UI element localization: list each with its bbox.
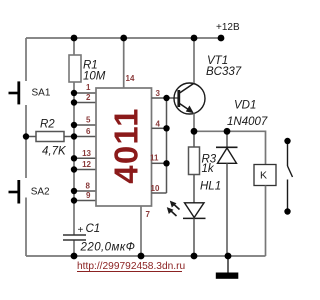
- junction pin 14 at +12V rail: [120, 35, 127, 42]
- svg-text:6: 6: [86, 127, 91, 136]
- junction pin 6: [71, 133, 77, 139]
- wire pin 6 stub: [74, 136, 96, 138]
- wire relay coil to bottom rail: [265, 186, 267, 257]
- svg-text:HL1: HL1: [200, 181, 221, 193]
- svg-text:SA2: SA2: [31, 187, 50, 198]
- junction pin 13: [71, 155, 77, 161]
- junction collector at +12V rail: [191, 35, 198, 42]
- wire emitter node to relay coil: [194, 131, 266, 164]
- junction C1 at bottom rail: [71, 253, 78, 260]
- wire pin 5 stub: [74, 124, 96, 126]
- junction pin 1: [71, 90, 77, 96]
- svg-text:4,7K: 4,7K: [42, 146, 67, 158]
- svg-text:4011: 4011: [108, 107, 145, 183]
- wire top +12V rail: [26, 37, 221, 39]
- junction ground node at bottom rail: [225, 253, 232, 260]
- LED emission arrow 2: [167, 207, 177, 216]
- wire bottom rail: [26, 255, 266, 257]
- junction emitter node: [191, 128, 198, 135]
- site url underline: [77, 271, 182, 273]
- diode VD1: [216, 147, 238, 163]
- node +12V terminal: [218, 35, 225, 42]
- wire pin 11 stub: [152, 162, 167, 164]
- junction pin 9: [71, 197, 77, 203]
- wire R3 bottom lead: [193, 175, 195, 203]
- wire right pin bus (x=166.5): [166, 98, 168, 193]
- junction VD1 cathode node: [224, 128, 231, 135]
- relay coil K: [254, 165, 276, 186]
- junction R2 at left rail: [23, 133, 29, 139]
- wire left pin bus (x=74): [73, 38, 75, 256]
- wire pin 2 stub: [74, 102, 96, 104]
- junction pin 3: [163, 95, 169, 101]
- svg-text:4: 4: [156, 120, 161, 129]
- svg-text:11: 11: [150, 154, 159, 163]
- svg-text:12: 12: [82, 160, 91, 169]
- wire pin 12 stub: [74, 169, 96, 171]
- junction pin 12: [71, 166, 77, 172]
- svg-text:10M: 10M: [83, 71, 106, 83]
- svg-text:C1: C1: [86, 223, 101, 235]
- svg-text:1: 1: [86, 83, 91, 92]
- svg-text:220,0мкФ: 220,0мкФ: [80, 242, 136, 254]
- svg-text:5: 5: [86, 116, 91, 125]
- LED emission arrow 1: [170, 201, 180, 210]
- wire pin 14: [123, 38, 125, 88]
- wire R2 leads: [26, 136, 74, 138]
- pushbutton SA2 plate: [17, 180, 20, 204]
- wire VD1 anode to bottom rail: [226, 163, 228, 256]
- wire pin 1 stub: [74, 92, 96, 94]
- wire pin 13 stub: [74, 157, 96, 159]
- junction pin 5: [71, 122, 77, 128]
- svg-text:3: 3: [156, 89, 161, 98]
- wire collector of VT1: [193, 38, 195, 83]
- svg-text:9: 9: [86, 191, 91, 200]
- wire pin 10 stub: [152, 192, 167, 194]
- wire pin 8 stub: [74, 190, 96, 192]
- svg-text:http://299792458.3dn.ru: http://299792458.3dn.ru: [77, 261, 185, 272]
- wire pin 7: [140, 206, 142, 256]
- svg-text:BC337: BC337: [206, 66, 242, 78]
- relay contact fixed lead: [287, 144, 289, 166]
- svg-text:7: 7: [146, 210, 151, 219]
- svg-text:13: 13: [82, 149, 91, 158]
- wire VD1 cathode lead: [226, 131, 228, 147]
- relay contact K terminal bottom: [284, 208, 290, 214]
- junction R1 top at +12V rail: [71, 35, 78, 42]
- svg-text:K: K: [260, 170, 267, 182]
- junction pin 7 at bottom rail: [138, 253, 145, 260]
- capacitor C1: [63, 235, 86, 240]
- wire HL1 cathode to bottom rail: [193, 218, 195, 256]
- pushbutton SA2 actuator stem: [9, 191, 19, 194]
- pushbutton SA1 actuator stem: [9, 92, 19, 95]
- junction pin 11: [163, 160, 169, 166]
- wire R3 top lead: [193, 131, 195, 147]
- wire base of VT1: [167, 97, 179, 99]
- wire pin 9 stub: [74, 200, 96, 202]
- wire pin 3 stub: [152, 97, 167, 99]
- svg-text:14: 14: [126, 74, 135, 83]
- wire ground stub: [227, 256, 229, 273]
- svg-text:1k: 1k: [202, 163, 215, 175]
- junction pin 4: [163, 125, 169, 131]
- svg-text:8: 8: [86, 182, 91, 191]
- resistor R3: [189, 147, 200, 175]
- junction pin 2: [71, 99, 77, 105]
- resistor R2: [36, 132, 64, 142]
- svg-text:SA1: SA1: [32, 88, 51, 99]
- transistor Q1 VT1: [174, 83, 205, 114]
- IC U1 4011 body: [96, 88, 152, 206]
- junction HL1 at bottom rail: [191, 253, 198, 260]
- wire pin 4 stub: [152, 127, 167, 129]
- wire left rail (gaps at SA1 and SA2): [25, 38, 27, 256]
- svg-text:VD1: VD1: [234, 100, 256, 112]
- relay contact K terminal top: [284, 138, 290, 144]
- LED HL1: [183, 203, 206, 219]
- wire emitter of VT1: [193, 114, 195, 132]
- svg-text:2: 2: [86, 93, 91, 102]
- svg-text:+12В: +12В: [216, 22, 240, 33]
- svg-text:10: 10: [151, 184, 160, 193]
- pushbutton SA1 plate: [17, 81, 20, 104]
- resistor R1: [69, 55, 81, 82]
- ground: [216, 273, 239, 279]
- relay contact lower lead: [287, 180, 289, 209]
- relay contact blade: [288, 166, 293, 177]
- svg-text:R2: R2: [40, 119, 55, 131]
- junction pin 8: [71, 188, 77, 194]
- svg-text:1N4007: 1N4007: [227, 116, 268, 128]
